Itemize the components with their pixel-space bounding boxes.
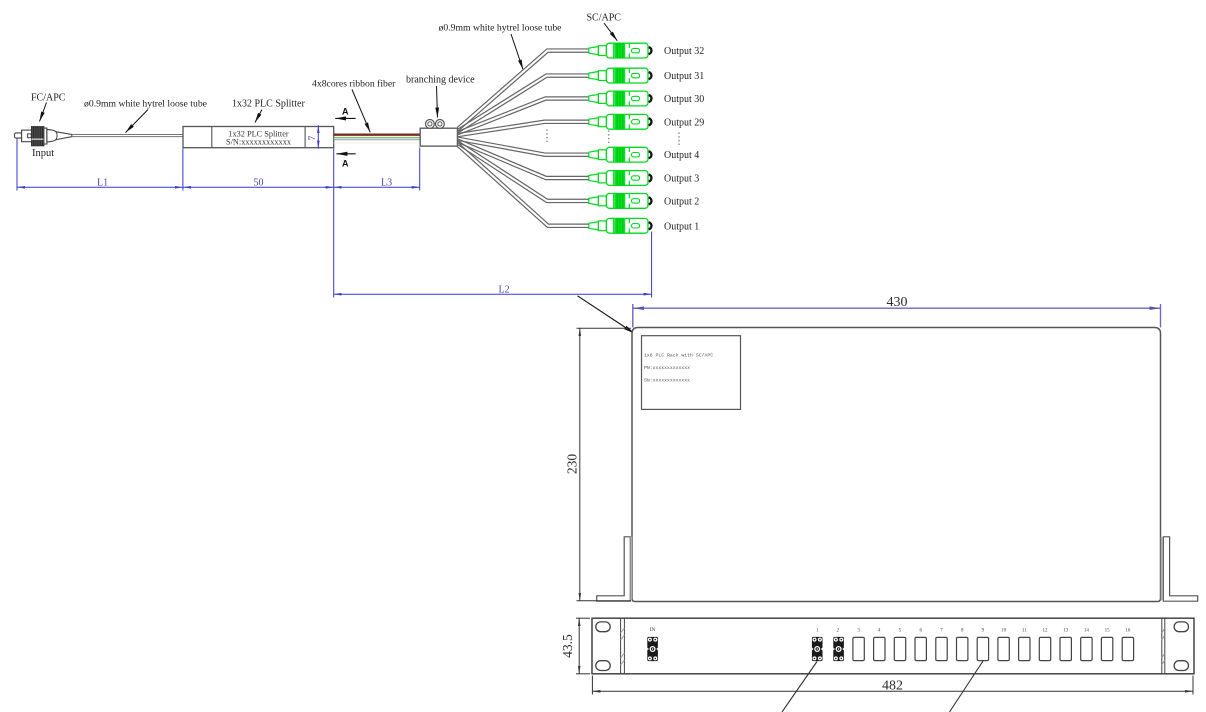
svg-text:PN:xxxxxxxxxxxxx: PN:xxxxxxxxxxxxx — [644, 365, 690, 371]
leader loose tube (left) — [126, 110, 149, 133]
SC/APC connector Output 2 — [589, 194, 652, 209]
dimension L2 — [334, 232, 652, 298]
svg-text:IN: IN — [650, 627, 656, 633]
leader branching device — [437, 86, 438, 118]
port numbers — [816, 629, 1131, 634]
leader 4x8cores ribbon fiber — [352, 90, 370, 133]
dimension 7 (box height) — [317, 125, 319, 148]
FC/APC connector ferrule tip — [15, 133, 22, 138]
svg-text:16: 16 — [1125, 629, 1131, 634]
left mounting bracket (side view) — [597, 537, 631, 601]
dimension 430 — [633, 304, 1161, 328]
cable to Output 4 (double line) — [457, 137, 589, 153]
port 2 FC adapter — [833, 637, 844, 661]
svg-text:Output 3: Output 3 — [664, 174, 699, 185]
SC/APC connector Output 29 — [589, 114, 652, 129]
cable to Output 3 (double line) — [457, 139, 589, 177]
dimension 43.5 — [576, 618, 590, 674]
svg-text:L3: L3 — [381, 178, 392, 189]
svg-text:Output 2: Output 2 — [664, 196, 699, 207]
IN FC adapter — [647, 637, 658, 661]
svg-text:Output 29: Output 29 — [664, 117, 704, 128]
dimension 50 — [183, 186, 334, 188]
SC/APC connector Output 4 — [589, 147, 652, 162]
cable to Output 1 (double line) — [457, 142, 589, 224]
svg-text:Input: Input — [32, 148, 54, 159]
leader from L2 assembly to rack corner — [578, 296, 635, 334]
svg-text:230: 230 — [565, 454, 580, 475]
dimension L1 — [17, 139, 183, 191]
svg-text:13: 13 — [1063, 629, 1069, 634]
output labels — [664, 46, 704, 232]
branching device rollers — [426, 120, 435, 129]
svg-text:482: 482 — [882, 678, 903, 693]
svg-text:Output 31: Output 31 — [664, 71, 704, 82]
SC/APC connector Output 31 — [589, 68, 652, 83]
cable to Output 2 (double line) — [457, 140, 589, 199]
cable to Output 31 (double line) — [457, 74, 589, 130]
svg-text:ø0.9mm white hytrel loose tube: ø0.9mm white hytrel loose tube — [84, 99, 207, 110]
svg-text:15: 15 — [1105, 629, 1111, 634]
svg-text:43.5: 43.5 — [560, 634, 575, 658]
svg-text:SC/APC: SC/APC — [587, 13, 622, 24]
svg-text:L2: L2 — [499, 285, 510, 296]
svg-text:4x8cores ribbon fiber: 4x8cores ribbon fiber — [312, 79, 396, 90]
leader line from port 9 — [950, 661, 984, 712]
input fiber loose tube (double line) — [72, 134, 183, 136]
svg-text:A: A — [342, 159, 349, 169]
branching device — [420, 128, 457, 146]
SC/APC connector Output 30 — [589, 91, 652, 106]
cable to Output 30 (double line) — [457, 97, 589, 132]
svg-text:Output 4: Output 4 — [664, 150, 699, 161]
svg-text:Output 1: Output 1 — [664, 221, 699, 232]
ear slots (ovals) — [596, 622, 610, 632]
svg-text:12: 12 — [1043, 629, 1049, 634]
FC/APC knurled nut — [32, 127, 44, 146]
empty ports 3-16 — [853, 637, 1134, 660]
svg-text:ø0.9mm white hytrel loose tube: ø0.9mm white hytrel loose tube — [439, 23, 562, 34]
right ear divider — [1161, 618, 1163, 674]
ribbon fiber (4 colored lines) — [334, 134, 421, 136]
svg-text:11: 11 — [1022, 629, 1027, 634]
leader line from port 1 — [782, 662, 817, 712]
section mark A (top) — [335, 117, 355, 119]
rack enclosure (top view) — [632, 328, 1161, 602]
FC/APC collar ring — [44, 128, 47, 144]
front panel outline — [592, 618, 1194, 674]
leader FC/APC — [40, 103, 47, 122]
ellipsis dots between row 29 and row 4 — [547, 130, 679, 146]
leader SC/APC — [604, 23, 617, 41]
svg-text:A: A — [342, 107, 349, 117]
cable to Output 32 (double line) — [457, 49, 589, 127]
1x32 PLC splitter box — [183, 127, 334, 148]
svg-text:1x8 PLC Rack with SC/APC: 1x8 PLC Rack with SC/APC — [644, 353, 713, 359]
svg-text:S/N:xxxxxxxxxxxx: S/N:xxxxxxxxxxxx — [226, 138, 292, 147]
leader 1x32 PLC Splitter — [255, 110, 262, 123]
FC/APC connector body — [22, 130, 32, 142]
FC/APC connector key — [28, 134, 32, 138]
product label plate — [642, 336, 741, 410]
svg-text:7: 7 — [308, 136, 318, 141]
SC/APC connector Output 3 — [589, 171, 652, 186]
port 1 FC adapter — [812, 637, 823, 661]
cable to Output 29 (double line) — [457, 120, 589, 133]
right mounting bracket (side view) — [1163, 537, 1197, 601]
dimension L3 — [334, 148, 420, 298]
svg-text:10: 10 — [1001, 629, 1007, 634]
svg-text:50: 50 — [254, 178, 264, 189]
svg-text:Output 32: Output 32 — [664, 46, 704, 57]
svg-text:Output 30: Output 30 — [664, 94, 704, 105]
dimension 482 — [592, 676, 1193, 695]
section mark A (bottom) — [336, 153, 355, 155]
svg-text:430: 430 — [887, 295, 908, 310]
SC/APC connector Output 1 — [589, 218, 652, 233]
svg-text:branching device: branching device — [406, 75, 475, 86]
svg-text:14: 14 — [1084, 629, 1090, 634]
leader loose tube (right) — [511, 34, 523, 70]
dimension 230 — [577, 328, 632, 601]
svg-text:L1: L1 — [97, 178, 108, 189]
SC/APC connector Output 32 — [589, 43, 652, 58]
svg-text:1x32 PLC Splitter: 1x32 PLC Splitter — [232, 99, 305, 110]
left ear divider — [620, 618, 622, 674]
svg-text:FC/APC: FC/APC — [31, 93, 66, 104]
FC/APC boot — [47, 130, 72, 142]
svg-text:SN:xxxxxxxxxxxxx: SN:xxxxxxxxxxxxx — [644, 378, 690, 384]
